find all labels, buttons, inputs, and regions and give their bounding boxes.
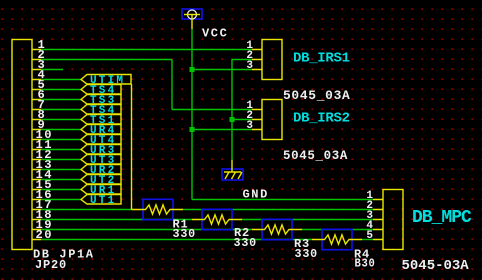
wire JP20.6 to TS3	[41, 99, 81, 101]
DB_MPC pin numbers	[366, 190, 373, 242]
resistor R2	[192, 209, 257, 250]
junction at DB_IRS1.3	[190, 67, 195, 72]
wire GND net to DB_MPC.1	[192, 199, 373, 201]
DB_IRS1 pin numbers	[246, 40, 253, 72]
svg-text:B30: B30	[355, 257, 376, 271]
svg-text:5045_03A: 5045_03A	[283, 88, 351, 103]
svg-text:UT1: UT1	[90, 195, 116, 207]
svg-text:330: 330	[234, 236, 258, 250]
svg-text:JP20: JP20	[35, 258, 67, 272]
net label UTIM	[81, 75, 131, 88]
svg-text:VCC: VCC	[202, 27, 228, 41]
junction at DB_IRS2.2	[230, 117, 235, 122]
wire JP20.9 to UR4	[41, 129, 81, 131]
net label TS3	[81, 95, 121, 108]
wire JP20.5 to TS4	[41, 89, 81, 91]
wire JP20.2 vertical down	[171, 60, 173, 110]
svg-text:3: 3	[246, 60, 253, 72]
svg-text:DB_IRS2: DB_IRS2	[293, 111, 350, 127]
svg-text:5045_03A: 5045_03A	[283, 148, 348, 163]
selected wire vertical	[131, 84, 133, 210]
resistor R1	[132, 199, 197, 241]
svg-text:3: 3	[246, 120, 253, 132]
wire JP20.15 to UR1	[41, 189, 81, 191]
wire JP20.14 to UT2	[41, 179, 81, 181]
net label UR4	[81, 125, 121, 138]
wire to DB_IRS2.2	[232, 119, 252, 121]
connector JP20 body	[12, 40, 41, 250]
wire JP20.19 to R3	[41, 229, 252, 231]
ground symbol	[222, 160, 243, 180]
wire JP20.7 to TS4	[41, 109, 81, 111]
wire to DB_IRS1.3	[192, 69, 252, 71]
net label UT1	[81, 195, 121, 208]
net label UR1	[81, 185, 121, 198]
resistor R4	[312, 229, 376, 270]
wire to DB_IRS2.3	[192, 129, 252, 131]
wire JP20.11 to UR3	[41, 149, 81, 151]
wire JP20.1 to DB_IRS1.1	[41, 49, 252, 51]
net label TS4 second	[81, 105, 121, 118]
wire R3 to DB_MPC.4	[302, 229, 373, 231]
wire R1 to DB_MPC.2	[183, 209, 373, 211]
wire JP20.16 to UT1	[41, 199, 81, 201]
svg-text:5045-03A: 5045-03A	[402, 258, 470, 274]
wire JP20.8 to TS1	[41, 119, 81, 121]
net label UR3	[81, 145, 121, 158]
wire JP20.4 to UTIM	[41, 79, 81, 81]
wire JP20.17 to R1	[41, 209, 132, 211]
wire to DB_IRS2.1	[172, 109, 252, 111]
wire JP20.13 to UR2	[41, 169, 81, 171]
wire JP20.18 to R2	[41, 219, 192, 221]
wire JP20.3 stub	[41, 69, 63, 71]
wire R2 to DB_MPC.3	[242, 219, 373, 221]
net label TS4	[81, 85, 121, 98]
power port VCC	[182, 9, 202, 29]
resistor R3	[252, 219, 318, 261]
JP20 pin numbers 1-20	[36, 38, 54, 242]
wire JP20.2 horizontal	[41, 59, 172, 61]
net label UT3	[81, 155, 121, 168]
svg-text:330: 330	[295, 247, 319, 261]
junction at DB_IRS2.3	[190, 127, 195, 132]
wire JP20.10 to UT4	[41, 139, 81, 141]
svg-text:5: 5	[366, 230, 373, 242]
svg-text:GND: GND	[243, 188, 269, 202]
wire R4 to DB_MPC.5	[362, 239, 373, 241]
svg-text:DB_MPC: DB_MPC	[412, 208, 472, 228]
net label UT4	[81, 135, 121, 148]
svg-text:330: 330	[173, 227, 197, 241]
DB_IRS2 pin numbers	[246, 100, 253, 132]
net label TS1	[81, 115, 121, 128]
wire VCC vertical	[191, 29, 193, 200]
wire DB_IRS1.2 corner	[232, 60, 252, 161]
connector DB_IRS1 body	[252, 40, 282, 80]
wire JP20.20 to R4	[41, 239, 312, 241]
net label UR2	[81, 165, 121, 178]
net label UT2	[81, 175, 121, 188]
connector DB_IRS2 body	[252, 100, 282, 140]
connector DB_MPC body	[373, 190, 403, 250]
wire JP20.12 to UT3	[41, 159, 81, 161]
svg-text:DB_IRS1: DB_IRS1	[293, 51, 350, 67]
